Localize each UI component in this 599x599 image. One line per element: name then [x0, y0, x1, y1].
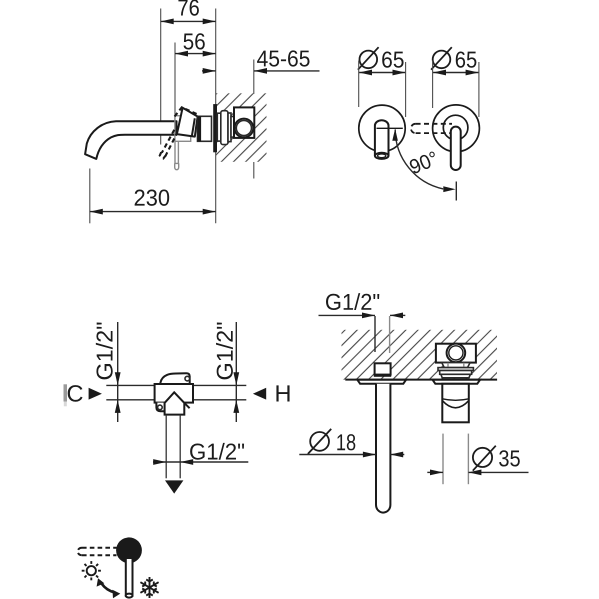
extension line 230 left — [89, 169, 91, 224]
spout nipple in wall — [374, 363, 391, 377]
dim 45-65 — [202, 50, 320, 73]
dim 56 — [175, 33, 216, 56]
sun (hot) — [82, 561, 101, 580]
label C — [68, 385, 83, 402]
valve box behind wall — [234, 107, 254, 137]
dashed lever (horizontal position) — [411, 124, 452, 133]
G1/2 label right (rotated) — [216, 322, 233, 379]
cartridge between handle and wall — [198, 116, 212, 141]
arrow C — [89, 388, 102, 400]
lever stem — [175, 141, 179, 169]
left G1/2 dimension — [106, 322, 155, 422]
G1/2 label — [326, 293, 379, 310]
label H — [276, 385, 289, 401]
knob — [116, 537, 142, 563]
handle escutcheon circle (right) — [433, 105, 480, 152]
temperature arrow — [97, 578, 121, 598]
right escutcheon plate edge-on — [433, 380, 481, 384]
extension line 76 left — [160, 9, 162, 145]
grey bar before C — [64, 384, 68, 401]
knob stem — [126, 558, 133, 598]
spout tube front — [375, 120, 389, 159]
wall face extension line — [215, 9, 217, 224]
dashed handle (alternate position) — [160, 107, 197, 158]
dim Ø18 — [299, 429, 404, 458]
spout tube from below — [376, 384, 390, 513]
90 degree arc — [392, 129, 456, 201]
dim Ø65 left — [358, 47, 406, 117]
outlet G1/2 dimension — [153, 443, 248, 465]
cartridge ring — [447, 344, 466, 363]
wall hatch section — [216, 93, 267, 162]
escutcheon bar at wall — [213, 104, 217, 152]
90 degree text — [408, 151, 438, 175]
wall underside line — [345, 379, 497, 381]
arrow H — [253, 388, 266, 400]
dim Ø35 — [427, 434, 528, 485]
wall hatch band — [342, 330, 498, 380]
cartridge box in wall — [436, 344, 476, 363]
cartridge flange plates — [438, 368, 473, 378]
dim 230 — [90, 190, 216, 215]
valve body — [155, 373, 193, 414]
dim 76 — [161, 0, 216, 24]
dim Ø65 right — [431, 47, 479, 117]
dashed knob position — [78, 548, 117, 556]
snowflake (cold) — [140, 577, 158, 598]
G1/2 dimension lines — [319, 313, 406, 354]
handle (solid) — [177, 108, 198, 137]
inlet port circle — [235, 119, 254, 138]
left escutcheon plate edge-on — [357, 380, 406, 384]
G1/2 label left (rotated) — [96, 322, 113, 379]
cartridge body (hidden, grey) — [175, 116, 191, 142]
flange plates behind wall — [217, 111, 234, 145]
outlet arrow down — [165, 480, 183, 493]
spout side view — [85, 121, 176, 159]
right G1/2 dimension — [193, 322, 247, 422]
outlet pipe lines — [166, 415, 180, 479]
handle skirt cylinder from below — [442, 384, 469, 423]
lever front (down position) — [451, 127, 461, 170]
extension line 45-65 right — [253, 60, 255, 179]
extension line 56 left — [174, 43, 176, 121]
centerline left circle — [377, 127, 403, 129]
spout escutcheon circle (left) — [359, 105, 405, 151]
cartridge nut — [442, 363, 470, 368]
